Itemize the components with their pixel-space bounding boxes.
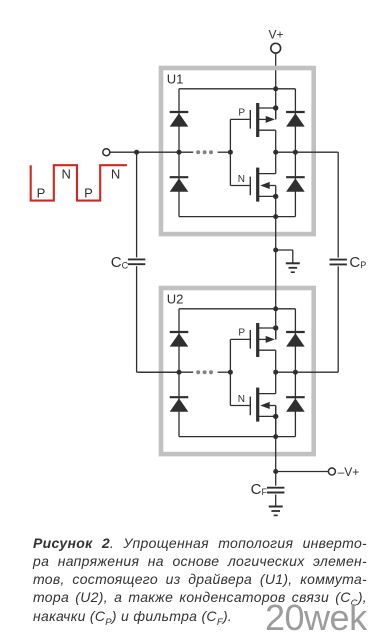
junction: gate node bbox=[228, 150, 233, 155]
wire: input row into block bbox=[110, 151, 193, 153]
svg-text:U1: U1 bbox=[167, 71, 184, 86]
junction: output node bbox=[273, 469, 278, 474]
svg-text:CP: CP bbox=[349, 254, 366, 271]
ground (output filter) bbox=[269, 507, 283, 516]
wire: right diode column bbox=[294, 89, 296, 217]
clamp diode U2 lower-left bbox=[170, 397, 189, 412]
terminal: input bbox=[103, 149, 110, 156]
junction: right diode column / output bbox=[293, 370, 298, 375]
svg-text:V+: V+ bbox=[268, 27, 283, 41]
red input square-wave bbox=[31, 165, 127, 200]
clamp diode U2 lower-right bbox=[286, 397, 305, 412]
svg-text:U2: U2 bbox=[167, 291, 184, 306]
clamp diode U2 upper-left bbox=[170, 332, 189, 347]
wire: NMOS gate lead bbox=[230, 405, 249, 407]
clamp diode U1 upper-right bbox=[286, 112, 305, 127]
junction: inverter output node bbox=[273, 370, 278, 375]
watermark 20wek bbox=[265, 597, 367, 639]
junction: left diode column / input bbox=[177, 370, 182, 375]
clamp diode U2 upper-right bbox=[286, 332, 305, 347]
caption line 2 bbox=[33, 552, 367, 570]
wire: PMOS body tie bbox=[275, 328, 277, 339]
junction: gate node bbox=[228, 370, 233, 375]
junction: left diode column / input bbox=[177, 150, 182, 155]
terminal V+ bbox=[271, 43, 281, 53]
junction: bottom rail tap bbox=[273, 214, 278, 219]
caption line 5 bbox=[33, 607, 367, 625]
capacitor Cf (filter) bbox=[267, 488, 284, 493]
PMOS transistor Q1 (U1 P-channel) bbox=[250, 103, 275, 152]
wire: U1 bottom rail to U2 top (through mid node) bbox=[275, 217, 277, 340]
svg-text:N: N bbox=[238, 394, 245, 405]
wire: inner top rail bbox=[179, 308, 295, 310]
junction: right diode column / output bbox=[293, 150, 298, 155]
wire: Cc top lead bbox=[136, 152, 138, 257]
wire: PMOS gate lead bbox=[230, 118, 249, 120]
NMOS transistor Q4 (U2 N-channel) bbox=[250, 372, 275, 436]
svg-text:P: P bbox=[238, 328, 245, 339]
svg-text:CC: CC bbox=[111, 254, 129, 271]
wire: output row to block edge bbox=[276, 371, 339, 373]
logic block U1 outline bbox=[161, 68, 314, 234]
junction: input / Cc tap bbox=[134, 150, 139, 155]
junction: NMOS source bbox=[273, 194, 278, 199]
wire: left diode column bbox=[178, 89, 180, 217]
svg-text:CF: CF bbox=[251, 481, 268, 498]
ellipsis dots (parallel gates) U2 bbox=[196, 370, 213, 374]
NMOS transistor Q2 (U1 N-channel) bbox=[250, 152, 275, 216]
caption line 3 bbox=[33, 570, 367, 588]
wire: output node down to Cf bbox=[275, 472, 277, 486]
junction: PMOS source / supply bbox=[273, 325, 278, 330]
wire: U1 output to Cp bbox=[337, 152, 339, 257]
junction: top rail tap bbox=[273, 86, 278, 91]
wire: inner bottom rail bbox=[179, 216, 295, 218]
ellipsis dots (parallel gates) U1 bbox=[196, 150, 213, 154]
capacitor Cp (pump) bbox=[330, 260, 347, 265]
wire: row to gate node bbox=[218, 371, 231, 373]
clamp diode U1 lower-left bbox=[170, 177, 189, 192]
wire: NMOS gate lead bbox=[230, 185, 249, 187]
wire: output row to block edge bbox=[276, 151, 339, 153]
wire: gate column bbox=[229, 119, 231, 185]
wire: inner bottom rail bbox=[179, 436, 295, 438]
wire: output row to -V+ terminal bbox=[276, 471, 329, 473]
PMOS transistor Q3 (U2 P-channel) bbox=[250, 323, 275, 372]
wire: gate column bbox=[229, 339, 231, 405]
capacitor Cc (coupling) bbox=[128, 259, 145, 264]
logic block U2 outline bbox=[161, 288, 314, 454]
clamp diode U1 lower-right bbox=[286, 177, 305, 192]
svg-text:N: N bbox=[238, 174, 245, 185]
wire: input row into block bbox=[140, 371, 193, 373]
caption line 4 bbox=[33, 588, 367, 606]
wire: right diode column bbox=[294, 309, 296, 437]
ground (mid reference) bbox=[286, 263, 300, 272]
wire: row to gate node bbox=[218, 151, 231, 153]
caption line 1 bbox=[33, 534, 367, 552]
terminal: -V+ output bbox=[328, 468, 335, 475]
wire: V+ down to U1 bbox=[275, 53, 277, 119]
wire: mid node to ground bbox=[276, 249, 293, 251]
wire: Cf to ground bbox=[275, 495, 277, 506]
svg-text:N: N bbox=[62, 166, 71, 181]
wire: Cp bottom to U2 output row bbox=[337, 266, 339, 372]
junction: NMOS source bbox=[273, 414, 278, 419]
wire: PMOS body tie bbox=[275, 108, 277, 119]
clamp diode U1 upper-left bbox=[170, 112, 189, 127]
svg-text:P: P bbox=[84, 186, 93, 201]
junction: top rail tap bbox=[273, 306, 278, 311]
wire: U2 NMOS rail down to output node bbox=[275, 406, 277, 472]
wire: PMOS gate lead bbox=[230, 338, 249, 340]
svg-text:–V+: –V+ bbox=[338, 465, 360, 479]
wire: Cc bottom lead to U2 input bbox=[136, 266, 138, 372]
wire: inner top rail bbox=[179, 88, 295, 90]
svg-text:N: N bbox=[111, 166, 120, 181]
junction: bottom rail tap bbox=[273, 434, 278, 439]
junction: inverter output node bbox=[273, 150, 278, 155]
wire: left diode column bbox=[178, 309, 180, 437]
svg-text:P: P bbox=[238, 108, 245, 119]
svg-text:P: P bbox=[37, 186, 46, 201]
junction: mid node bbox=[273, 248, 278, 253]
junction: PMOS source / supply bbox=[273, 105, 278, 110]
